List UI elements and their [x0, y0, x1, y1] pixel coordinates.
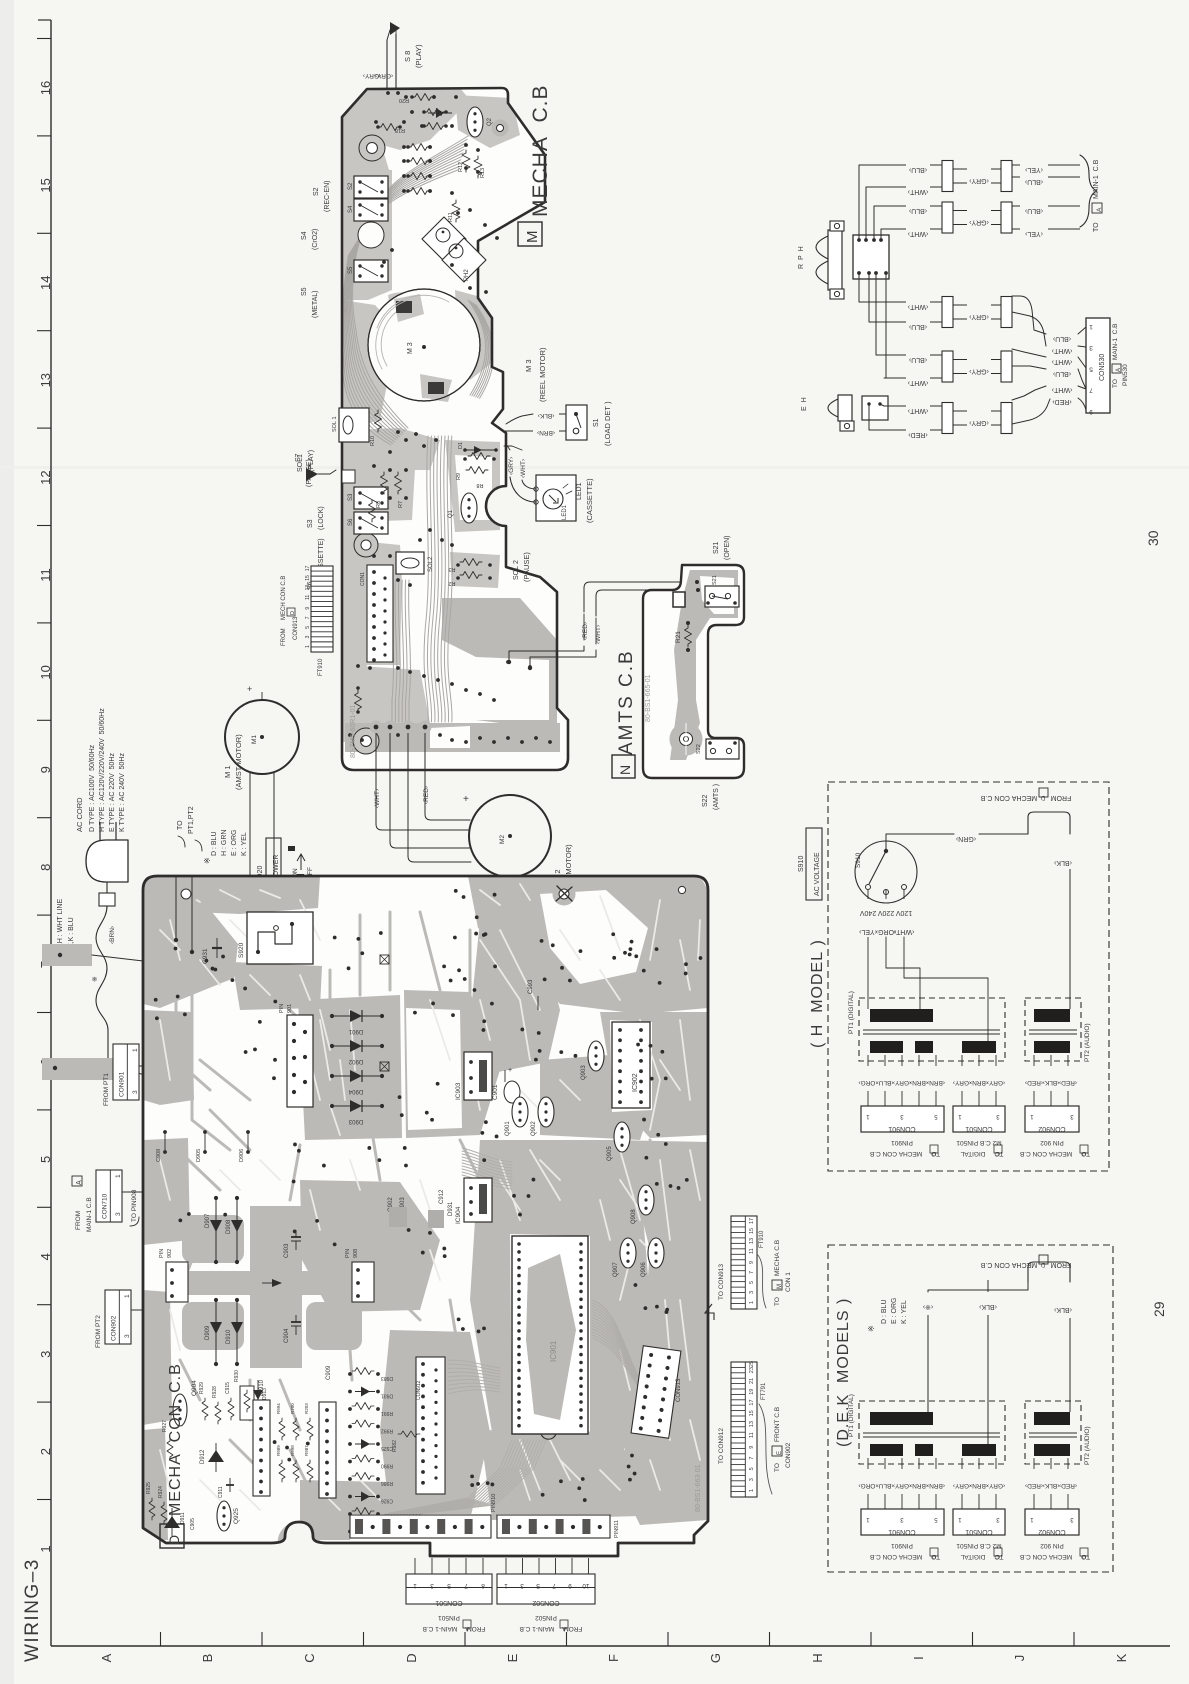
svg-text:9: 9 — [305, 607, 311, 610]
svg-text:3: 3 — [124, 1334, 131, 1338]
svg-text:‹BRN›: ‹BRN› — [927, 1482, 945, 1489]
svg-text:D: D — [1040, 794, 1045, 800]
svg-text:‹WHT›: ‹WHT› — [893, 928, 914, 935]
svg-text:‹GRY›: ‹GRY› — [893, 1482, 911, 1489]
svg-text:‹BRN›: ‹BRN› — [537, 429, 555, 436]
svg-text:SOL 1: SOL 1 — [332, 416, 338, 432]
svg-text:MAIN-1 C.B: MAIN-1 C.B — [1093, 159, 1100, 199]
svg-text:D: D — [1082, 1553, 1086, 1559]
svg-text:R203: R203 — [304, 1403, 309, 1414]
svg-text:5: 5 — [305, 626, 311, 629]
svg-text:S22: S22 — [702, 794, 709, 807]
svg-text:11: 11 — [749, 1432, 755, 1438]
svg-text:PIN530: PIN530 — [1122, 364, 1129, 386]
svg-text:PT1 (DIGITAL): PT1 (DIGITAL) — [848, 991, 855, 1034]
svg-text:※: ※ — [867, 1325, 876, 1332]
svg-text:901: 901 — [287, 1004, 293, 1013]
svg-text:MAIN-1 C.B: MAIN-1 C.B — [1112, 324, 1119, 360]
svg-text:M: M — [524, 231, 541, 244]
svg-text:CON901: CON901 — [888, 1125, 915, 1132]
svg-text:7: 7 — [749, 1271, 755, 1274]
svg-text:R987: R987 — [304, 1445, 309, 1456]
svg-text:R989: R989 — [276, 1445, 281, 1456]
svg-text:R12: R12 — [458, 162, 464, 172]
svg-text:S5: S5 — [348, 266, 354, 274]
svg-text:D: D — [166, 1535, 182, 1545]
svg-text:‹※›: ‹※› — [922, 1303, 933, 1310]
svg-text:IC901: IC901 — [549, 1340, 558, 1362]
svg-text:CON710: CON710 — [101, 1193, 108, 1219]
svg-text:D931: D931 — [381, 1393, 393, 1399]
svg-text:‹GRN›: ‹GRN› — [955, 835, 976, 842]
svg-text:‹BLU›: ‹BLU› — [877, 1482, 894, 1489]
svg-text:PIN 902: PIN 902 — [1040, 1542, 1064, 1549]
svg-text:‹BLK›: ‹BLK› — [538, 412, 555, 419]
svg-text:1: 1 — [115, 1174, 122, 1178]
svg-text:CON530: CON530 — [1099, 354, 1106, 381]
svg-text:R924: R924 — [158, 1486, 164, 1498]
svg-text:A: A — [1096, 207, 1103, 212]
svg-text:3: 3 — [430, 1582, 434, 1589]
svg-text:Q906: Q906 — [641, 1262, 647, 1277]
svg-text:M 3: M 3 — [524, 359, 533, 372]
svg-text:(PLAY): (PLAY) — [308, 450, 315, 472]
svg-text:M2: M2 — [499, 835, 506, 844]
svg-text:D908: D908 — [226, 1219, 232, 1234]
svg-text:S 8: S 8 — [403, 51, 412, 62]
svg-text:C: C — [996, 1150, 1000, 1156]
svg-text:13: 13 — [305, 585, 311, 591]
svg-text:D: D — [932, 1150, 936, 1156]
svg-text:C911: C911 — [218, 1486, 224, 1498]
svg-text:R18: R18 — [395, 127, 405, 133]
svg-text:R991: R991 — [381, 1410, 393, 1416]
svg-text:LED1: LED1 — [576, 482, 583, 500]
svg-text:13: 13 — [749, 1421, 755, 1427]
svg-text:3: 3 — [749, 1291, 755, 1294]
svg-text:80-BS1-665-01: 80-BS1-665-01 — [645, 674, 652, 722]
svg-text:1: 1 — [38, 1545, 53, 1552]
svg-text:Q901: Q901 — [505, 1121, 511, 1136]
svg-text:E : ORG: E : ORG — [231, 830, 238, 856]
svg-text:SOL1: SOL1 — [297, 454, 304, 472]
svg-text:D1: D1 — [458, 442, 464, 449]
svg-text:C904: C904 — [284, 1328, 290, 1343]
svg-text:S4: S4 — [301, 231, 308, 240]
svg-text:3: 3 — [38, 1351, 53, 1358]
svg-text:N: N — [617, 765, 633, 775]
svg-text:3: 3 — [115, 1212, 122, 1216]
svg-text:‹YEL›: ‹YEL› — [1024, 230, 1043, 237]
svg-text:S21: S21 — [712, 575, 718, 585]
svg-text:+: + — [508, 1067, 512, 1074]
svg-text:21: 21 — [749, 1378, 755, 1384]
svg-text:1: 1 — [1089, 323, 1093, 330]
svg-text:TO: TO — [1112, 379, 1119, 388]
svg-text:M1: M1 — [251, 735, 258, 744]
svg-text:D : BLU: D : BLU — [881, 1299, 888, 1324]
svg-text:240V: 240V — [860, 909, 877, 916]
svg-text:PIN: PIN — [345, 1249, 351, 1258]
svg-text:D983: D983 — [381, 1375, 393, 1381]
svg-text:‹BRN›: ‹BRN› — [970, 1079, 988, 1086]
svg-text:‹RED›: ‹RED› — [908, 431, 928, 438]
svg-text:CON913: CON913 — [676, 1378, 682, 1402]
svg-text:3: 3 — [305, 635, 311, 638]
svg-text:FROM MAIN-1 C.B: FROM MAIN-1 C.B — [520, 1625, 583, 1632]
svg-text:D905: D905 — [196, 1149, 202, 1162]
svg-text:1: 1 — [132, 1048, 139, 1052]
svg-text:S2: S2 — [348, 182, 354, 190]
svg-text:R994: R994 — [276, 1403, 281, 1414]
svg-text:PIN910: PIN910 — [491, 1494, 497, 1512]
svg-text:5: 5 — [38, 1156, 53, 1163]
svg-text:S22: S22 — [696, 744, 702, 754]
svg-text:A: A — [465, 1625, 469, 1631]
svg-text:CON902: CON902 — [1038, 1125, 1065, 1132]
svg-text:(REEL MOTOR): (REEL MOTOR) — [538, 347, 547, 402]
svg-text:R930: R930 — [234, 1370, 240, 1382]
svg-text:D: D — [1082, 1150, 1086, 1156]
svg-text:R8: R8 — [376, 501, 382, 508]
svg-text:CON1: CON1 — [360, 572, 366, 586]
svg-text:908: 908 — [353, 1249, 359, 1258]
svg-text:8: 8 — [481, 1582, 485, 1589]
svg-text:PIN 902: PIN 902 — [1040, 1139, 1064, 1146]
svg-text:Q907: Q907 — [613, 1262, 619, 1277]
svg-text:13: 13 — [749, 1238, 755, 1244]
svg-text:Q908: Q908 — [631, 1209, 637, 1224]
svg-text:( H MODEL ): ( H MODEL ) — [809, 939, 826, 1048]
svg-text:80-ZM5-60R1-01: 80-ZM5-60R1-01 — [350, 705, 357, 758]
svg-text:‹GRY›: ‹GRY› — [893, 1079, 911, 1086]
svg-text:2325: 2325 — [749, 1361, 755, 1373]
svg-text:C901: C901 — [492, 1084, 499, 1100]
svg-text:(CrO2): (CrO2) — [312, 229, 319, 250]
svg-text:C903: C903 — [284, 1243, 290, 1258]
svg-text:13: 13 — [38, 373, 53, 387]
svg-text:E TYPE : AC 220V 50Hz: E TYPE : AC 220V 50Hz — [109, 753, 116, 832]
svg-text:Q1: Q1 — [448, 509, 454, 518]
svg-text:‹BLU›: ‹BLU› — [1052, 335, 1071, 342]
svg-text:‹BLK›: ‹BLK› — [1053, 859, 1072, 866]
svg-text:MAIN-1 C.B: MAIN-1 C.B — [86, 1197, 93, 1232]
svg-text:K: K — [1114, 1653, 1129, 1662]
svg-text:19: 19 — [749, 1389, 755, 1395]
svg-text:A: A — [562, 1625, 566, 1631]
svg-text:S2: S2 — [313, 187, 320, 196]
svg-text:FROM MECHA CON C.B: FROM MECHA CON C.B — [980, 794, 1071, 801]
svg-text:2: 2 — [38, 1448, 53, 1455]
svg-text:D: D — [932, 1553, 936, 1559]
svg-text:S910: S910 — [798, 856, 805, 872]
svg-text:220V: 220V — [878, 909, 895, 916]
svg-text:‹WHT›: ‹WHT› — [907, 188, 928, 195]
svg-text:‹BLK›: ‹BLK› — [1053, 1306, 1072, 1313]
svg-text:D902: D902 — [348, 1058, 363, 1064]
svg-text:‹BRN›: ‹BRN› — [109, 926, 116, 944]
svg-text:CON902: CON902 — [110, 1315, 117, 1341]
svg-text:‹BRN›: ‹BRN› — [910, 1482, 928, 1489]
svg-text:R11: R11 — [448, 212, 454, 222]
svg-text:‹WHT›: ‹WHT› — [907, 230, 928, 237]
svg-text:C905: C905 — [190, 1518, 196, 1530]
svg-text:TO PIN908: TO PIN908 — [131, 1189, 138, 1222]
svg-text:(REC-EN): (REC-EN) — [324, 181, 331, 213]
svg-text:9: 9 — [749, 1261, 755, 1264]
svg-text:12: 12 — [38, 470, 53, 484]
svg-text:K : YEL: K : YEL — [241, 832, 248, 856]
svg-text:D901: D901 — [348, 1028, 363, 1034]
svg-text:1: 1 — [124, 1294, 131, 1298]
svg-text:‹GRY›: ‹GRY› — [953, 1079, 971, 1086]
svg-text:D: D — [290, 611, 296, 615]
svg-text:R7: R7 — [398, 501, 404, 508]
svg-text:‹GRY›: ‹GRY› — [987, 1482, 1005, 1489]
svg-text:3: 3 — [749, 1478, 755, 1481]
svg-text:(PLAY): (PLAY) — [414, 44, 423, 68]
svg-text:CON901: CON901 — [118, 1071, 125, 1097]
svg-text:9: 9 — [38, 766, 53, 773]
svg-text:3: 3 — [1089, 344, 1093, 351]
svg-text:R929: R929 — [199, 1382, 205, 1394]
svg-text:R21: R21 — [675, 631, 682, 643]
svg-text:‹BLU›: ‹BLU› — [908, 166, 927, 173]
svg-text:7: 7 — [464, 1582, 468, 1589]
svg-text:AC VOLTAGE: AC VOLTAGE — [814, 852, 821, 896]
svg-text:‹YEL›: ‹YEL› — [1024, 166, 1043, 173]
svg-text:CON913: CON913 — [293, 616, 299, 640]
svg-text:PT1 (DIGITAL): PT1 (DIGITAL) — [848, 1394, 855, 1437]
svg-text:D912: D912 — [200, 1449, 206, 1464]
svg-text:‹BLU›: ‹BLU› — [1024, 178, 1043, 185]
svg-text:FT910: FT910 — [318, 658, 324, 676]
svg-text:PIN: PIN — [159, 1249, 165, 1258]
svg-text:PIN501: PIN501 — [438, 1614, 460, 1621]
svg-text:H: H — [810, 1653, 825, 1662]
svg-text:C912: C912 — [439, 1189, 445, 1204]
svg-text:1: 1 — [749, 1301, 755, 1304]
svg-text:FT910: FT910 — [759, 1230, 765, 1248]
svg-text:E,K : BLU: E,K : BLU — [68, 917, 75, 948]
svg-text:A: A — [99, 1653, 114, 1662]
svg-text:‹GRY›: ‹GRY› — [968, 177, 988, 184]
svg-text:4: 4 — [38, 1253, 53, 1260]
svg-text:16: 16 — [38, 81, 53, 95]
svg-text:E : ORG: E : ORG — [891, 1298, 898, 1324]
svg-text:‹WHT›: ‹WHT› — [907, 407, 928, 414]
svg-text:‹WHT›: ‹WHT› — [1051, 386, 1072, 393]
svg-text:E: E — [777, 1451, 783, 1455]
svg-text:3: 3 — [520, 1582, 524, 1589]
svg-text:‹GRY›: ‹GRY› — [375, 72, 393, 79]
svg-text:‹BLU›: ‹BLU› — [908, 323, 927, 330]
svg-text:F: F — [606, 1654, 621, 1662]
svg-text:‹ORG›: ‹ORG› — [858, 1482, 877, 1489]
svg-text:‹WHT›: ‹WHT› — [1051, 347, 1072, 354]
svg-text:E: E — [505, 1653, 520, 1662]
svg-text:1: 1 — [413, 1582, 417, 1589]
svg-text:1: 1 — [305, 645, 311, 648]
svg-text:S4: S4 — [348, 205, 354, 213]
svg-text:Q902: Q902 — [531, 1121, 537, 1136]
svg-text:FRONT C.B: FRONT C.B — [774, 1407, 781, 1442]
svg-text:R10: R10 — [370, 436, 376, 446]
svg-text:PIN911: PIN911 — [614, 1520, 620, 1538]
svg-text:IC904: IC904 — [455, 1206, 462, 1224]
svg-text:902: 902 — [167, 1249, 173, 1258]
svg-text:MECHA C.B: MECHA C.B — [529, 84, 552, 217]
svg-text:CON501: CON501 — [965, 1528, 992, 1535]
svg-text:Q2: Q2 — [487, 117, 493, 126]
svg-text:Q905: Q905 — [607, 1146, 613, 1161]
svg-text:5: 5 — [1089, 365, 1093, 372]
svg-text:E H: E H — [801, 396, 808, 411]
svg-text:‹BRN›: ‹BRN› — [927, 1079, 945, 1086]
svg-text:FT791: FT791 — [761, 1382, 767, 1400]
svg-text:‹WHT›: ‹WHT› — [520, 459, 527, 478]
svg-text:C926: C926 — [381, 1498, 393, 1504]
svg-text:FROM MAIN-1 C.B: FROM MAIN-1 C.B — [423, 1625, 486, 1632]
svg-text:AMTS C.B: AMTS C.B — [616, 649, 637, 755]
svg-text:R3: R3 — [448, 566, 455, 572]
svg-text:‹RED›: ‹RED› — [1025, 1079, 1043, 1086]
svg-text:WIRING–3: WIRING–3 — [22, 1558, 43, 1662]
svg-text:29: 29 — [1151, 1301, 1167, 1317]
svg-text:MECHA CON C.B: MECHA CON C.B — [167, 1363, 184, 1516]
svg-text:‹WHT›: ‹WHT› — [374, 789, 381, 808]
svg-text:30: 30 — [1145, 530, 1161, 546]
svg-text:D907: D907 — [205, 1213, 211, 1228]
svg-text:FROM PT2: FROM PT2 — [95, 1315, 102, 1348]
svg-text:80-BS1-663-01: 80-BS1-663-01 — [695, 1464, 702, 1512]
svg-text:‹ORG›: ‹ORG› — [875, 928, 896, 935]
svg-text:※: ※ — [92, 976, 99, 982]
svg-text:5: 5 — [749, 1467, 755, 1470]
svg-text:17: 17 — [749, 1399, 755, 1405]
svg-text:15: 15 — [749, 1410, 755, 1416]
svg-text:‹GRY›: ‹GRY› — [968, 219, 988, 226]
svg-text:7: 7 — [1089, 387, 1093, 394]
svg-text:9: 9 — [568, 1582, 572, 1589]
svg-text:1: 1 — [749, 1489, 755, 1492]
svg-text:FROM PT1: FROM PT1 — [103, 1073, 110, 1106]
svg-text:17: 17 — [305, 565, 311, 571]
svg-text:Q904: Q904 — [191, 1380, 198, 1396]
svg-text:SOL 2: SOL 2 — [513, 560, 520, 580]
svg-text:D : BLU: D : BLU — [211, 831, 218, 856]
svg-text:C: C — [996, 1553, 1000, 1559]
svg-text:11: 11 — [749, 1248, 755, 1254]
svg-text:PIN901: PIN901 — [891, 1542, 913, 1549]
svg-text:‹BLU›: ‹BLU› — [1024, 207, 1043, 214]
svg-text:C993: C993 — [528, 979, 534, 994]
svg-text:‹BLK›: ‹BLK› — [1043, 1079, 1060, 1086]
svg-text:Q903: Q903 — [581, 1065, 587, 1080]
svg-text:H : GRN: H : GRN — [221, 830, 228, 856]
svg-text:Q925: Q925 — [233, 1508, 240, 1524]
svg-text:(PAUSE): (PAUSE) — [522, 552, 531, 582]
svg-text:M: M — [777, 1284, 783, 1289]
svg-text:7: 7 — [552, 1582, 556, 1589]
svg-text:7: 7 — [305, 616, 311, 619]
svg-text:8: 8 — [38, 864, 53, 871]
svg-text:TO: TO — [774, 1463, 781, 1472]
svg-text:S21: S21 — [713, 541, 720, 554]
svg-text:D906: D906 — [239, 1149, 245, 1162]
svg-text:‹BRN›: ‹BRN› — [970, 1482, 988, 1489]
svg-text:D904: D904 — [348, 1088, 363, 1094]
svg-text:PIN502: PIN502 — [535, 1614, 557, 1621]
svg-text:R P H: R P H — [798, 245, 805, 269]
svg-text:CON902: CON902 — [785, 1442, 792, 1468]
svg-text:R928: R928 — [212, 1386, 218, 1398]
svg-text:R8: R8 — [476, 482, 483, 488]
svg-text:I: I — [911, 1656, 926, 1660]
svg-text:‹RED›: ‹RED› — [582, 622, 589, 640]
svg-text:S5: S5 — [301, 287, 308, 296]
svg-text:PIN: PIN — [279, 1004, 285, 1013]
svg-text:‹WHT›: ‹WHT› — [907, 379, 928, 386]
svg-text:TO: TO — [177, 820, 184, 830]
svg-text:S910: S910 — [855, 852, 862, 868]
svg-text:(LOCK): (LOCK) — [318, 506, 325, 530]
svg-text:‹BLK›: ‹BLK› — [978, 1303, 997, 1310]
svg-text:CON912: CON912 — [416, 1380, 422, 1400]
svg-text:R700: R700 — [290, 1403, 295, 1414]
svg-text:(CASSETTE): (CASSETTE) — [585, 478, 594, 523]
svg-text:17: 17 — [749, 1218, 755, 1224]
svg-text:5: 5 — [749, 1281, 755, 1284]
svg-text:PT1,PT2: PT1,PT2 — [188, 806, 195, 834]
svg-text:R925: R925 — [146, 1482, 152, 1494]
svg-text:M 1: M 1 — [223, 765, 232, 778]
svg-text:10: 10 — [582, 1582, 590, 1589]
svg-text:R982: R982 — [392, 1440, 398, 1452]
svg-text:‹WHT›: ‹WHT› — [907, 303, 928, 310]
svg-text:B: B — [200, 1654, 215, 1663]
svg-text:15: 15 — [749, 1228, 755, 1234]
svg-text:S1: S1 — [593, 418, 600, 427]
svg-text:‹GRY›: ‹GRY› — [968, 368, 988, 375]
svg-text:S3: S3 — [348, 493, 354, 501]
svg-text:R2: R2 — [448, 580, 455, 586]
svg-text:S3: S3 — [307, 519, 314, 528]
svg-text:M 3: M 3 — [407, 342, 414, 354]
svg-text:C909: C909 — [326, 1365, 332, 1380]
svg-text:‹BLU›: ‹BLU› — [908, 356, 927, 363]
svg-text:K TYPE : AC 240V 50Hz: K TYPE : AC 240V 50Hz — [119, 753, 126, 832]
svg-text:‹BLU›: ‹BLU› — [877, 1079, 894, 1086]
svg-text:120V: 120V — [896, 909, 913, 916]
svg-text:3: 3 — [132, 1090, 139, 1094]
svg-text:R990: R990 — [381, 1463, 393, 1469]
svg-text:(OPEN): (OPEN) — [724, 536, 731, 561]
svg-text:15: 15 — [305, 575, 311, 581]
svg-text:‹GRY›: ‹GRY› — [968, 313, 988, 320]
svg-text:K : YEL: K : YEL — [901, 1300, 908, 1324]
svg-text:FROM MECH CON C.B: FROM MECH CON C.B — [281, 576, 287, 646]
svg-text:5: 5 — [447, 1582, 451, 1589]
svg-text:R998: R998 — [290, 1445, 295, 1456]
svg-text:‹RED›: ‹RED› — [1052, 398, 1072, 405]
svg-text:D910: D910 — [226, 1329, 232, 1344]
svg-text:AC CORD: AC CORD — [75, 797, 84, 832]
svg-text:‹GRY›: ‹GRY› — [968, 419, 988, 426]
svg-text:※: ※ — [203, 857, 212, 864]
svg-text:(METAL): (METAL) — [312, 291, 319, 318]
svg-text:IC910: IC910 — [259, 1379, 265, 1396]
